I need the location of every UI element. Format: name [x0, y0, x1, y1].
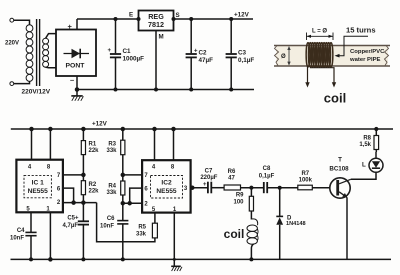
svg-text:C4: C4: [17, 228, 25, 234]
capacitor C2: [186, 18, 197, 92]
svg-text:R9: R9: [236, 193, 244, 199]
resistor R1: [81, 128, 85, 181]
resistor R8: [374, 128, 379, 153]
ground below PONT: [71, 96, 83, 101]
pipe diameter dimension: [287, 46, 290, 66]
svg-text:C8: C8: [263, 166, 271, 172]
svg-text:R7: R7: [301, 171, 309, 177]
transformer core: [36, 19, 38, 86]
svg-text:10nF: 10nF: [100, 224, 114, 230]
node PONT- / ground rail: [76, 88, 79, 91]
svg-text:T: T: [338, 157, 342, 164]
svg-text:C2: C2: [199, 50, 208, 57]
svg-text:220µF: 220µF: [200, 175, 217, 181]
wire: [14, 20, 30, 24]
resistor R4: [121, 181, 125, 220]
LED L: [369, 152, 383, 172]
svg-text:R8: R8: [363, 136, 371, 142]
svg-text:–: –: [70, 76, 74, 85]
wire IC1 pin5 down: [30, 212, 32, 232]
wire emitter to ground rail: [346, 197, 348, 259]
svg-text:IC2: IC2: [161, 180, 172, 187]
svg-text:22k: 22k: [89, 189, 100, 195]
svg-text:C3: C3: [238, 50, 247, 57]
svg-text:NE555: NE555: [156, 188, 176, 195]
wire top ground rail: [77, 89, 254, 91]
wire PONT+ to +12V rail: [76, 19, 78, 30]
wire IC1 pin8 to rail: [49, 129, 51, 160]
svg-text:22k: 22k: [89, 148, 100, 154]
capacitor C3: [226, 18, 237, 92]
svg-text:47: 47: [228, 175, 235, 181]
capacitor C4: [25, 232, 36, 261]
resistor R3: [121, 128, 125, 182]
svg-text:15 turns: 15 turns: [346, 26, 376, 35]
svg-text:220V: 220V: [5, 40, 19, 46]
svg-text:C6: C6: [107, 216, 115, 222]
svg-text:C5+: C5+: [67, 216, 79, 222]
svg-text:+12V: +12V: [92, 121, 108, 128]
svg-text:0,1µF: 0,1µF: [238, 57, 254, 64]
node IC2 pin1 / ground rail: [173, 258, 176, 261]
svg-text:R1: R1: [89, 142, 97, 148]
svg-text:+: +: [108, 48, 112, 54]
pipe left break: [275, 46, 279, 66]
wire secondary bottom to bridge: [46, 66, 56, 69]
IC2 NE555: [142, 160, 191, 212]
svg-text:BC108: BC108: [329, 165, 349, 172]
wire IC2 pin3 output: [191, 186, 208, 189]
resistor R5: [152, 223, 157, 238]
wire IC1 pin7: [63, 174, 84, 176]
wire IC2 pin4 to rail: [154, 129, 156, 160]
svg-text:7812: 7812: [148, 20, 164, 29]
wire IC2 pin7: [123, 174, 142, 176]
svg-text:R2: R2: [89, 182, 97, 188]
svg-text:NE555: NE555: [28, 188, 48, 195]
wire IC1 pin2 node: [63, 202, 97, 204]
svg-text:100k: 100k: [299, 177, 313, 183]
wire PONT- down: [76, 76, 78, 96]
wire +12V top rail: [77, 18, 253, 20]
resistor R2: [81, 181, 85, 203]
wire IC1 pin4 to rail: [31, 129, 33, 160]
wire IC2 pin1 below rail: [173, 259, 175, 266]
dimension L = diameter: [307, 33, 334, 41]
svg-text:L = Ø: L = Ø: [312, 29, 327, 35]
svg-text:+12V: +12V: [234, 12, 250, 19]
capacitor C7: [208, 182, 224, 194]
capacitor C6: [117, 221, 128, 261]
resistor R9: [249, 188, 253, 220]
pipe right break: [385, 46, 389, 66]
bridge rectifier PONT box: [56, 30, 96, 77]
svg-text:Copper/PVC: Copper/PVC: [350, 49, 385, 55]
svg-text:1000µF: 1000µF: [123, 56, 145, 63]
svg-text:coil: coil: [324, 91, 346, 106]
svg-text:1,5k: 1,5k: [359, 142, 371, 148]
svg-text:M: M: [159, 34, 164, 41]
svg-text:1N4148: 1N4148: [286, 221, 306, 227]
capacitor C5: [78, 203, 89, 261]
svg-text:4,7µF: 4,7µF: [63, 223, 79, 229]
svg-text:33k: 33k: [106, 190, 117, 196]
svg-text:PONT: PONT: [66, 62, 86, 69]
wire collector to LED: [351, 172, 376, 179]
transformer secondary winding: [43, 38, 49, 67]
svg-text:47µF: 47µF: [199, 57, 214, 64]
wire IC1 pin1 to ground rail: [49, 212, 51, 259]
wire R5 bottom link to IC1 pin2 node: [97, 203, 155, 242]
resistor R7: [298, 185, 330, 190]
svg-text:coil: coil: [224, 227, 245, 241]
coil winding on pipe: [306, 43, 333, 67]
svg-text:C1: C1: [123, 48, 132, 55]
transformer primary terminal bottom: [10, 82, 14, 86]
svg-text:+: +: [68, 22, 73, 31]
resistor R6: [224, 185, 264, 190]
pipe body: [274, 46, 390, 67]
svg-text:Ø: Ø: [281, 54, 286, 60]
wire IC2 pin5 to R5: [154, 213, 156, 224]
wire IC1 pin6 link to pin2: [63, 188, 74, 203]
svg-text:0,1µF: 0,1µF: [259, 173, 275, 179]
svg-text:R6: R6: [228, 169, 236, 175]
svg-text:33k: 33k: [106, 148, 117, 154]
diode D 1N4148: [276, 186, 283, 259]
svg-text:220V/12V: 220V/12V: [22, 89, 51, 96]
+12V rail (bottom circuit): [11, 128, 393, 130]
svg-text:R3: R3: [108, 142, 116, 148]
capacitor C8: [264, 182, 298, 193]
wire: [14, 81, 30, 83]
transistor T BC108: [330, 178, 351, 260]
wire IC2 pin1 to ground: [173, 213, 175, 260]
transformer TR primary terminal top: [10, 18, 14, 22]
svg-text:10nF: 10nF: [10, 236, 24, 242]
transformer primary winding: [26, 25, 33, 82]
svg-text:R5: R5: [138, 225, 146, 231]
svg-text:water PIPE: water PIPE: [349, 57, 381, 63]
diode symbol inside PONT: [64, 53, 90, 55]
wire IC2 pin6 link: [130, 188, 142, 203]
IC1 NE555: [16, 160, 63, 213]
svg-text:S: S: [176, 12, 180, 19]
capacitor C1: [110, 18, 121, 92]
svg-text:+: +: [194, 49, 198, 55]
wire IC2 pin8 to rail: [173, 129, 175, 160]
leader from 15 turns to coil: [335, 36, 369, 57]
svg-text:R4: R4: [108, 184, 116, 190]
wire IC2 pin2 node: [123, 202, 142, 204]
svg-text:L: L: [362, 162, 366, 169]
regulator REG 7812: [137, 11, 175, 92]
svg-text:C7: C7: [205, 168, 213, 174]
ground under IC2 pin1: [171, 266, 182, 271]
coil illustration lead wires: [305, 66, 336, 88]
svg-text:100: 100: [233, 200, 244, 206]
bottom ground rail: [11, 258, 392, 260]
svg-text:33k: 33k: [136, 232, 147, 238]
coil L (bottom circuit inductor): [247, 219, 258, 261]
wire secondary top to bridge: [46, 34, 56, 39]
wire M pin: [155, 31, 157, 90]
svg-text:E: E: [129, 12, 133, 19]
svg-text:IC 1: IC 1: [32, 180, 44, 187]
svg-text:+: +: [203, 182, 207, 188]
